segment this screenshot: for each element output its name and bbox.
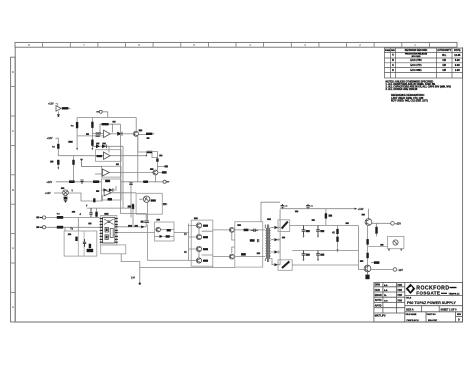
wire input2 <box>46 226 100 228</box>
wire B3 out bus <box>174 224 189 261</box>
wire mid rail x92 <box>91 118 93 149</box>
wire L1 in <box>279 214 281 220</box>
wire drive out lower <box>202 255 230 257</box>
svg-text:2-98: 2-98 <box>455 69 460 72</box>
wire U4 out <box>111 192 136 194</box>
wire rail x137 <box>137 136 139 182</box>
resistor R118 <box>105 180 110 182</box>
wire U5 bottom drop <box>121 254 140 262</box>
svg-text:7: 7 <box>83 43 85 47</box>
wire Q1 collector <box>135 118 137 132</box>
capacitor C35 <box>316 251 324 259</box>
label C18 <box>72 211 75 213</box>
diode D15 <box>103 188 107 192</box>
capacitor C19 <box>141 221 149 223</box>
wire U3 out <box>109 172 152 174</box>
svg-text:a.a: a.a <box>384 284 388 287</box>
svg-text:a.a: a.a <box>384 289 388 292</box>
wire row181 left <box>56 181 102 183</box>
svg-text:B: B <box>12 188 14 192</box>
diode D20 <box>274 226 280 229</box>
svg-text:REV: REV <box>457 314 462 316</box>
resistor R113 <box>72 156 74 182</box>
label pin wire a <box>128 225 132 227</box>
svg-text:SHEET 1 OF 3: SHEET 1 OF 3 <box>441 308 458 311</box>
resistor R108 <box>146 133 155 135</box>
terminal -12V out <box>393 268 403 272</box>
label U4 <box>96 190 99 192</box>
label Q20 <box>362 214 365 216</box>
svg-text:ZONE: ZONE <box>385 50 391 52</box>
transistor Q11 <box>196 234 201 239</box>
box B2 <box>64 231 97 256</box>
wire D14 to U3 <box>82 161 103 166</box>
resistor R112 <box>57 160 59 170</box>
label Q13 <box>203 260 208 262</box>
mosfet Q14 <box>229 228 234 233</box>
diode D19 <box>160 235 164 238</box>
box B4 drivers <box>191 220 213 266</box>
label K1 <box>151 199 156 201</box>
box B6 <box>388 236 404 248</box>
IC U5 right pins <box>115 219 118 243</box>
svg-text:DATE: DATE <box>454 49 461 52</box>
designator labels speckle <box>36 121 383 262</box>
wire row181 <box>121 181 163 183</box>
capacitor C17 <box>80 180 83 184</box>
svg-text:+12V: +12V <box>46 181 52 184</box>
REVISION TABLE <box>385 48 463 78</box>
svg-text:+12V: +12V <box>48 102 54 105</box>
terminal +12V out <box>391 222 402 226</box>
svg-text:+12V: +12V <box>45 192 51 195</box>
wire driver feeds <box>189 226 197 261</box>
wire y208 <box>87 207 133 209</box>
resistor R104 <box>91 140 93 146</box>
label R103 <box>68 141 72 143</box>
wire B4 stem <box>212 266 214 267</box>
wire Q20 out <box>372 222 391 224</box>
svg-text:8: 8 <box>28 43 30 47</box>
ground G1 <box>57 115 60 117</box>
resistor R102 <box>71 122 79 128</box>
svg-text:ECO 2629: ECO 2629 <box>412 56 421 58</box>
left tick band <box>11 57 16 322</box>
wire U5 out A <box>118 226 146 228</box>
svg-text:D: D <box>458 319 460 322</box>
svg-text:PART NO: PART NO <box>427 313 436 316</box>
wire Q14 tap <box>232 230 265 240</box>
wire top rail <box>77 117 136 119</box>
wire arrow end mid rail <box>91 148 93 151</box>
svg-text:-2: -2 <box>79 213 82 216</box>
transistor Q12 <box>196 246 201 251</box>
resistor R109 <box>147 151 152 153</box>
diode D22 <box>274 250 280 253</box>
svg-text:D: D <box>392 69 394 72</box>
svg-text:10: 10 <box>184 233 187 236</box>
box B7 under IC <box>101 245 126 254</box>
box B5 primary <box>235 222 263 267</box>
svg-text:7/95: 7/95 <box>397 284 402 287</box>
box opto <box>136 193 162 214</box>
transformer T1 primary <box>265 225 266 262</box>
label U1 <box>86 133 89 135</box>
svg-text:n.n: n.n <box>384 299 388 302</box>
svg-text:8-96: 8-96 <box>455 59 460 62</box>
resistor R125 <box>75 237 77 241</box>
connector J2 <box>96 110 102 113</box>
mosfet Q15 <box>229 254 234 259</box>
op-amp U2 <box>104 152 111 159</box>
svg-text:REVISION RECORD: REVISION RECORD <box>405 49 428 52</box>
logo diamond <box>406 284 416 294</box>
wire B3 internals <box>155 230 175 237</box>
resistor R127 <box>167 229 171 232</box>
wire +12V feed <box>56 104 58 106</box>
label C31 <box>312 219 315 221</box>
inductor L2 <box>278 260 292 271</box>
ground G2 <box>64 200 67 202</box>
transistor Q20 <box>365 219 372 226</box>
label DS1 <box>61 187 64 189</box>
svg-text:2: 2 <box>359 43 361 47</box>
resistor R114 <box>156 158 158 161</box>
diode D18 <box>141 225 144 228</box>
ground G3 <box>131 268 141 285</box>
transistor Q1 <box>134 131 139 136</box>
svg-text:+C: +C <box>310 206 313 208</box>
terminal T2 <box>40 226 46 229</box>
IC U5 left pins <box>100 219 103 243</box>
TITLE BLOCK <box>374 283 463 323</box>
box U2 <box>96 150 122 162</box>
junction arrow A1 <box>71 190 73 193</box>
label T1 <box>36 216 39 218</box>
resistor R129 <box>244 229 249 232</box>
zener D17 <box>64 197 68 200</box>
resistor R135 <box>371 261 379 264</box>
svg-text:R2: R2 <box>52 147 56 149</box>
svg-text:HB: HB <box>442 64 446 67</box>
wire diode row <box>92 146 123 152</box>
wire input1 <box>46 217 100 219</box>
svg-text:7a: 7a <box>70 228 73 231</box>
wire -V rail <box>292 264 358 266</box>
IC U5 block1 <box>105 227 108 232</box>
svg-text:4D: 4D <box>332 231 335 234</box>
zener D24 <box>332 226 339 250</box>
wire R110 to rail155 <box>57 149 59 156</box>
resistor R115 <box>143 181 148 184</box>
svg-text:(-)4: (-)4 <box>131 277 135 280</box>
wire U3 minus input <box>95 173 102 175</box>
resistor R106 <box>96 133 101 135</box>
wire U6 out <box>68 107 70 109</box>
svg-text:+12V: +12V <box>47 137 53 140</box>
wire lamp row <box>54 192 63 194</box>
svg-text:ECO 2771: ECO 2771 <box>410 64 422 67</box>
svg-text:P60 TOPAZ POWER SUPPLY: P60 TOPAZ POWER SUPPLY <box>407 301 456 305</box>
wire D11 to Q1 <box>122 133 133 135</box>
label R112 <box>50 161 53 163</box>
svg-text:NOT USED: R42, C12 (SEE LIST): NOT USED: R42, C12 (SEE LIST) <box>391 99 428 102</box>
arrow cap gnd 1 <box>303 236 305 239</box>
svg-text:REV: REV <box>391 50 395 52</box>
capacitor C30 <box>281 204 288 209</box>
transformer T1 secondary <box>269 228 270 259</box>
arrow A3 <box>337 249 339 252</box>
svg-text:-12V: -12V <box>398 269 403 272</box>
wire U1 out <box>110 133 117 135</box>
IC U5 block2 mark <box>106 236 108 239</box>
wire label to rail <box>56 138 59 143</box>
transistor Q3 <box>156 227 161 232</box>
op-amp U4 <box>104 190 111 196</box>
resistor R121 <box>128 203 135 226</box>
wire gnd drop <box>139 262 141 268</box>
diode D23 <box>274 263 280 266</box>
label D24 <box>346 222 349 224</box>
svg-text:1: 1 <box>414 43 416 47</box>
IC U5 block1 mark <box>106 228 108 231</box>
capacitor C33 <box>316 226 324 236</box>
resistor R130 <box>250 239 255 242</box>
inductor L1 <box>278 220 290 232</box>
label C36 <box>282 237 285 239</box>
label Q11 <box>203 236 208 238</box>
zener D25 <box>366 239 368 245</box>
label pin wire b <box>135 225 138 227</box>
zener D26 <box>366 253 368 258</box>
capacitor C31 <box>306 204 313 209</box>
svg-text:AUTHORITY: AUTHORITY <box>437 49 451 52</box>
transistor Q2 <box>153 170 158 175</box>
svg-text:DRN: DRN <box>375 284 380 287</box>
label D12 <box>96 143 99 145</box>
svg-text:500-0747: 500-0747 <box>428 319 438 322</box>
label R105 <box>112 121 115 123</box>
IC U5 block2 <box>105 235 108 240</box>
arrow A2 <box>86 205 88 208</box>
resistor R101 <box>62 107 69 109</box>
svg-text:P60PS.SCH: P60PS.SCH <box>407 320 419 322</box>
box U3 <box>101 166 121 177</box>
label T2 <box>36 226 39 228</box>
box U5 outer <box>101 215 117 245</box>
wire arrow end left rail <box>76 148 78 151</box>
capacitor C20 <box>83 239 86 247</box>
wire +V rail <box>280 208 354 210</box>
wire Q1 down branch <box>138 136 158 157</box>
svg-text:A: A <box>12 305 14 309</box>
resistor R126 <box>89 244 91 248</box>
svg-text:+C: +C <box>285 206 288 208</box>
wire Q15 tap <box>232 247 265 257</box>
svg-text:TITLE: TITLE <box>406 297 412 299</box>
wire U6 gnd stem <box>57 111 59 114</box>
diode D12 <box>96 144 100 148</box>
svg-text:HB: HB <box>442 59 446 62</box>
wire rail x120 <box>120 124 122 213</box>
IC U5 body <box>103 217 115 243</box>
zener D28 <box>365 272 369 279</box>
svg-text:W.L: W.L <box>442 54 447 57</box>
wire lamp to U4 <box>68 193 94 201</box>
wire R120 to U4 <box>96 195 103 201</box>
wire rail x131 <box>130 182 132 218</box>
svg-text:5: 5 <box>193 43 195 47</box>
wire Q20 emitter down <box>367 225 369 274</box>
svg-text:CHK: CHK <box>375 289 380 292</box>
wire Q1 emitter <box>138 134 146 136</box>
resistor R134 <box>375 223 377 236</box>
wire ref branch <box>368 246 388 248</box>
resistor R122 <box>95 208 97 217</box>
capacitor C32 <box>302 226 310 236</box>
label D13 <box>102 143 105 145</box>
wire secondary taps <box>271 228 274 265</box>
svg-text:APVD: APVD <box>375 299 382 302</box>
wire rail y155 <box>58 155 103 157</box>
label U5 <box>104 213 108 215</box>
op-amp U3 <box>102 169 109 176</box>
diode D13 <box>102 144 106 148</box>
capacitor C16 <box>129 183 133 184</box>
IC U5 block3 <box>110 228 113 237</box>
diode D11 <box>117 132 122 136</box>
svg-text:ECO 3801: ECO 3801 <box>410 69 422 72</box>
label R124 <box>88 223 91 225</box>
svg-text:FOSGATE: FOSGATE <box>416 291 440 296</box>
wire opto col down <box>148 225 189 260</box>
label rail <box>295 211 298 213</box>
arrow cap gnd 3 <box>303 259 305 262</box>
svg-text:FILE NAME: FILE NAME <box>406 313 417 316</box>
wire K1 down <box>147 202 149 220</box>
box B2 dividers <box>78 231 84 256</box>
diode D16 <box>109 188 113 192</box>
wire Q20 collector <box>368 209 370 219</box>
wire J2 to rail <box>102 112 107 118</box>
resistor R123 <box>57 213 63 219</box>
svg-text:12-95: 12-95 <box>454 54 461 57</box>
wire y213 <box>121 214 147 221</box>
capacitor C22 <box>257 239 258 242</box>
reference D27 <box>393 240 398 245</box>
svg-text:A: A <box>392 54 394 57</box>
box B3 <box>155 222 175 241</box>
wire primary feed up <box>261 202 280 222</box>
svg-text:MAT'L/FS: MAT'L/FS <box>375 314 386 317</box>
label R114 <box>159 155 162 157</box>
resistor R131 <box>241 253 246 256</box>
svg-text:7/95: 7/95 <box>397 289 402 292</box>
terminal T1 <box>40 216 46 219</box>
junction dot <box>146 155 147 156</box>
wire driver pair links <box>198 228 200 258</box>
resistor R117 <box>93 180 99 183</box>
transformer T1 core <box>267 225 268 263</box>
top tick band <box>15 42 457 47</box>
lamp DS1 <box>63 190 69 196</box>
wire drive out upper <box>202 230 230 231</box>
arrow cap gnd 4 <box>317 259 319 262</box>
svg-text:C: C <box>392 64 394 67</box>
label R129 <box>237 224 241 226</box>
terminal TP1 <box>163 180 169 183</box>
svg-text:SIZE A: SIZE A <box>406 308 414 311</box>
svg-text:R9: R9 <box>71 126 75 128</box>
resistor R119 <box>108 198 112 201</box>
svg-text:ENGR: ENGR <box>375 294 382 297</box>
svg-text:R4: R4 <box>57 213 61 216</box>
diode D14 <box>80 159 83 162</box>
resistor R105 <box>102 123 109 125</box>
wire x65 drop <box>64 227 66 231</box>
node +V arrow <box>355 208 364 211</box>
svg-text:9-96: 9-96 <box>455 64 460 67</box>
label R131 <box>257 252 260 254</box>
wire bottom bus <box>140 267 235 269</box>
left frame line <box>14 47 16 322</box>
wire rail x123 <box>122 146 124 208</box>
svg-text:3. ALL DIODES ARE 1N4148: 3. ALL DIODES ARE 1N4148 <box>386 88 418 91</box>
svg-text:+12V: +12V <box>395 223 401 226</box>
buffer U6 <box>56 106 61 112</box>
arrow cap gnd 2 <box>317 236 319 239</box>
wire Q2 emitter right <box>158 171 167 173</box>
capacitor C21 <box>251 229 258 232</box>
label R108 <box>147 137 150 139</box>
label Q1 <box>139 129 143 131</box>
label U3 <box>116 163 119 165</box>
wire x358 drop <box>357 226 359 270</box>
label B6 <box>380 244 383 246</box>
label B4 <box>194 217 198 219</box>
label Q2 <box>150 168 153 170</box>
wire U1 inputs <box>77 133 103 136</box>
wire U5 out B <box>118 232 155 234</box>
svg-text:30: 30 <box>184 251 187 254</box>
arrow A5 <box>400 249 402 252</box>
svg-text:6: 6 <box>138 43 140 47</box>
svg-text:ECO 2753: ECO 2753 <box>410 59 422 62</box>
resistor R128 <box>166 235 170 238</box>
resistor R107 <box>96 135 100 137</box>
wire K1 left <box>139 198 143 200</box>
right frame line <box>462 47 464 322</box>
svg-text:A: A <box>12 246 14 250</box>
wire Q21 base feed <box>358 269 364 271</box>
resistor R116 <box>69 180 75 183</box>
wire x78 drop <box>77 218 79 232</box>
wire left rail <box>76 118 78 149</box>
svg-text:HB: HB <box>442 69 446 72</box>
label Q21 <box>360 260 363 262</box>
resistor R110 <box>52 144 60 149</box>
wire rectified bus <box>279 209 281 264</box>
NOTES <box>386 80 452 102</box>
transistor Q13 <box>196 258 201 263</box>
label Q10 <box>203 225 208 227</box>
svg-text:7/95: 7/95 <box>397 294 402 297</box>
wire fb2 internals <box>101 186 116 190</box>
svg-text:7/95: 7/95 <box>397 299 402 302</box>
op-amp U1 <box>104 130 111 137</box>
transistor Q21 <box>364 265 371 272</box>
capacitor C18 <box>89 208 92 217</box>
